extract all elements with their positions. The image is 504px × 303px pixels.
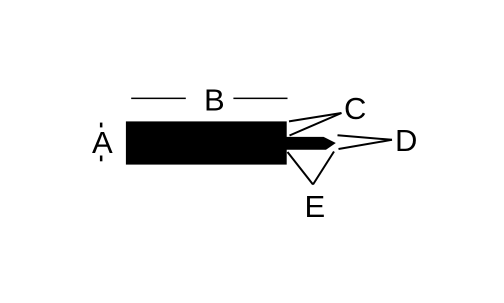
svg-text:E: E	[305, 189, 326, 224]
body bar (black rectangle)	[126, 121, 287, 164]
leader line E left	[288, 152, 314, 185]
leader line D upper	[338, 135, 393, 140]
leader line E right	[313, 152, 334, 185]
dashed extent line A lower dash	[100, 156, 103, 162]
dimension line B right segment	[233, 98, 287, 100]
svg-text:D: D	[395, 123, 417, 158]
pointed tip	[285, 137, 336, 150]
leader line C lower	[290, 113, 342, 136]
leader line C upper	[289, 113, 342, 121]
svg-text:C: C	[344, 91, 366, 126]
dimension line B left segment	[131, 98, 186, 100]
svg-text:B: B	[204, 83, 225, 118]
leader line D lower	[339, 140, 393, 149]
dashed extent line A upper dash	[100, 123, 103, 128]
svg-text:A: A	[92, 125, 113, 160]
